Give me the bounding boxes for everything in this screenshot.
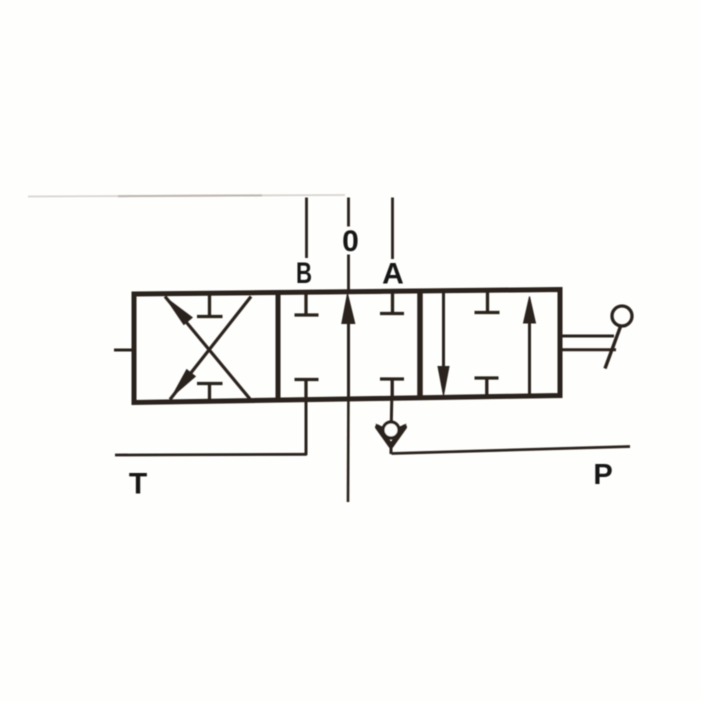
blocked port T (right cell top)	[475, 291, 500, 313]
blocked port T (right cell bottom)	[475, 378, 499, 397]
wire T line	[115, 453, 307, 457]
blocked port T (left cell top)	[197, 294, 223, 317]
arrowhead up-left	[166, 298, 193, 325]
svg-text:T: T	[129, 468, 147, 501]
check valve seat	[378, 427, 405, 446]
lever mount line lower	[560, 348, 616, 351]
svg-text:0: 0	[342, 225, 359, 258]
pilot stub (left)	[114, 349, 132, 352]
wire A port (top)	[391, 198, 394, 260]
neutral flow line with up arrow (middle cell)	[342, 294, 355, 324]
blocked port T (left cell bottom)	[197, 384, 223, 402]
blocked port T (middle cell, A bottom)	[380, 379, 404, 400]
arrowhead down-left	[172, 370, 195, 397]
svg-text:A: A	[382, 257, 404, 290]
position divider 1	[276, 293, 281, 401]
blocked port T (middle cell, B top)	[295, 293, 319, 316]
faint erased line	[28, 195, 345, 197]
lever mount line upper	[560, 335, 614, 338]
flow line with down arrow (right cell)	[442, 291, 445, 368]
wire check valve to P	[390, 444, 393, 454]
svg-text:B: B	[296, 257, 312, 290]
crossover diagonal (top-right to bottom-left)	[170, 297, 251, 400]
wire neutral tail (bottom)	[347, 400, 350, 502]
flow line with up arrow (right cell)	[524, 297, 536, 324]
lever shaft	[605, 327, 621, 369]
blocked port T (middle cell, B bottom)	[295, 380, 319, 401]
lever knob	[612, 306, 632, 326]
valve body outline	[134, 290, 560, 403]
crossover diagonal (top-left to bottom-right)	[165, 297, 250, 400]
position divider 2	[417, 291, 423, 398]
svg-text:P: P	[593, 459, 612, 491]
wire B port (bottom, to T)	[305, 401, 308, 456]
wire P line	[392, 447, 631, 454]
wire A port (bottom, to check valve)	[390, 400, 394, 423]
wire 0 neutral line (top, above label)	[347, 198, 350, 227]
wire B port (top)	[305, 198, 308, 259]
wire 0 neutral line (below label to body)	[347, 255, 350, 295]
blocked port T (middle cell, A top)	[380, 292, 404, 314]
check valve ball	[383, 422, 399, 438]
